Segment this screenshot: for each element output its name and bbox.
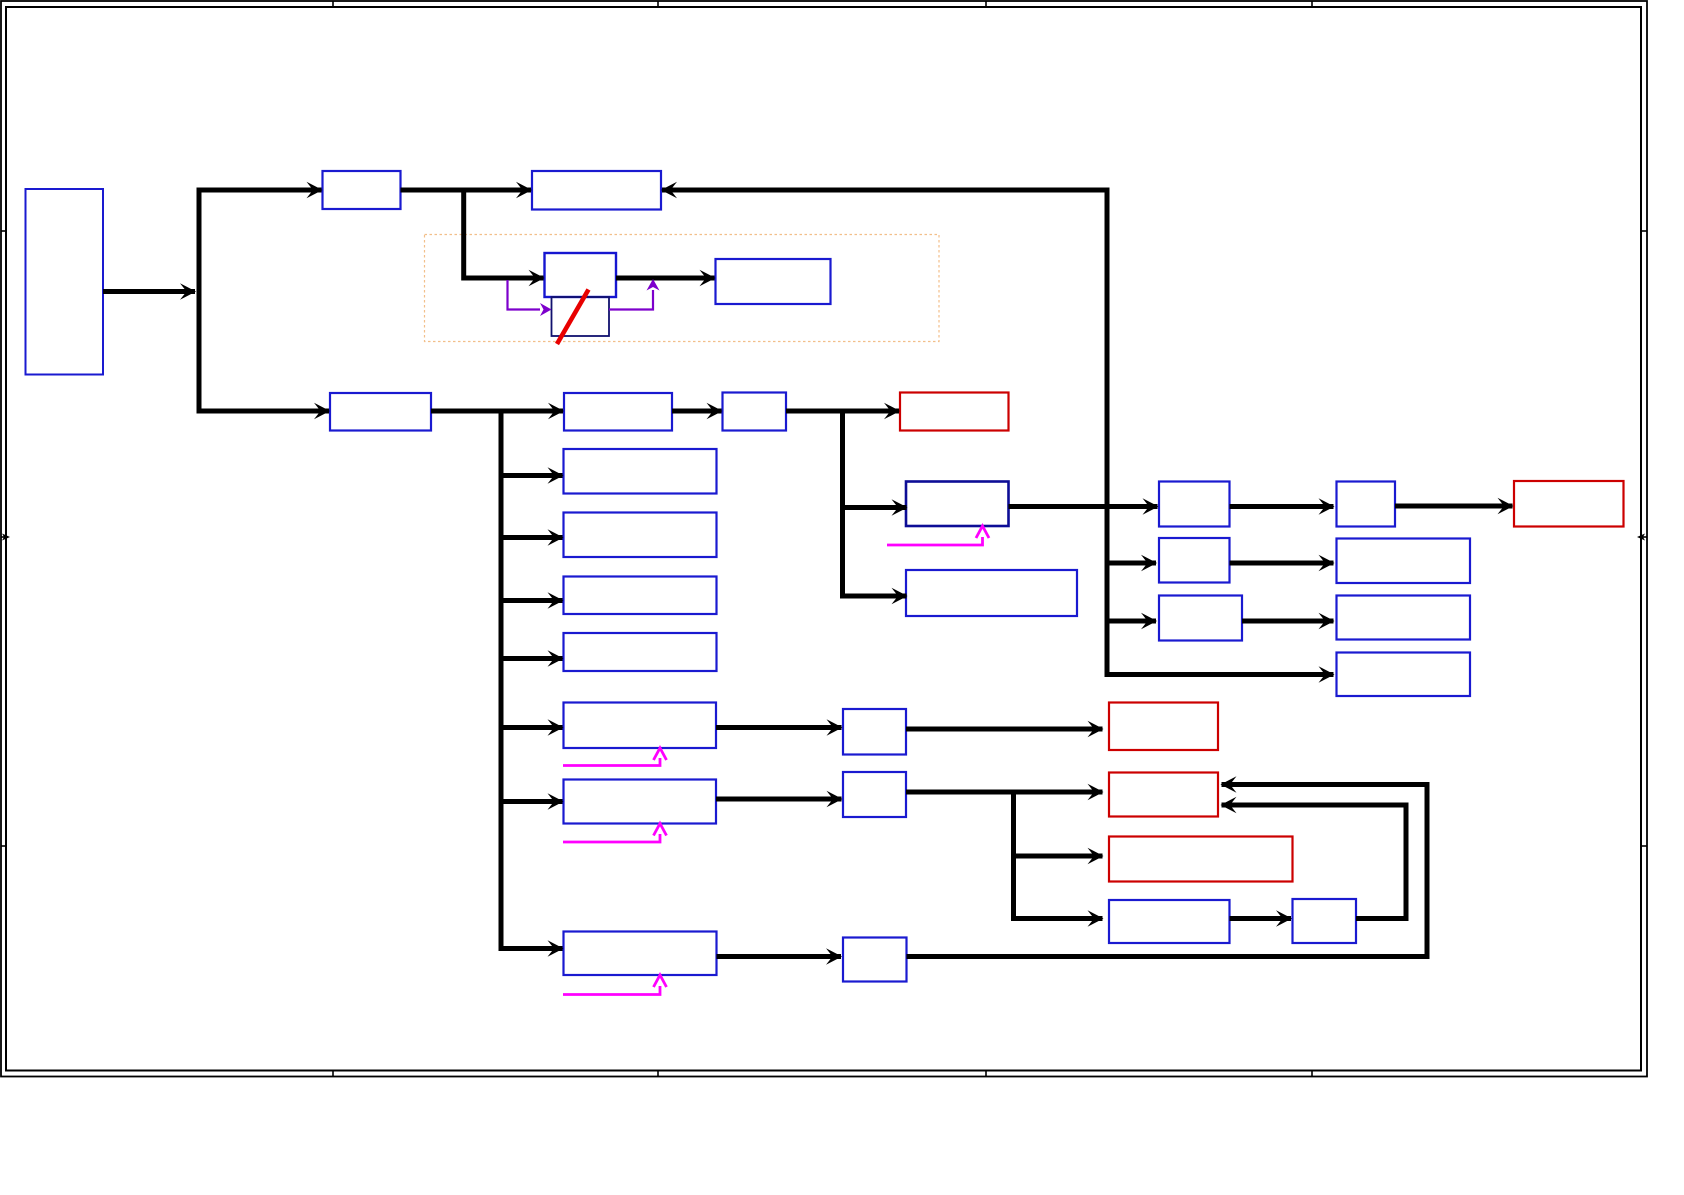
wire junction drop: [1014, 790, 1103, 919]
block N3: [1159, 538, 1230, 583]
wire drop to I1: [464, 190, 544, 278]
wire trunk to M10: [499, 535, 563, 540]
left zone tick 1: [1, 230, 7, 232]
block M1: [330, 393, 431, 431]
block B3: [532, 171, 661, 210]
right zone tick 1: [1640, 230, 1647, 232]
purple wire into I2: [508, 280, 541, 310]
wire trunk2 vertical: [843, 409, 907, 597]
block M4: [906, 482, 1009, 527]
wire N1 to N2: [1230, 504, 1334, 509]
wire M6 to SB1: [716, 725, 842, 730]
wire B1 to left trunk: [103, 289, 195, 294]
wire M8 to SB3: [717, 954, 842, 959]
block I3: [716, 259, 831, 304]
block N5: [1159, 596, 1242, 641]
wire feedback into B3: [662, 188, 1110, 193]
block R4 (red): [1514, 481, 1624, 527]
wire M1 to M2: [431, 409, 563, 414]
wire I1 to I3: [616, 276, 715, 281]
wire trunk to M12: [499, 656, 563, 661]
block SB3: [843, 938, 907, 982]
block N2: [1337, 482, 1396, 527]
wire trunk2 to M4: [840, 505, 907, 510]
wire M2 to M3: [672, 409, 722, 414]
wire N2 to R4: [1395, 504, 1513, 509]
block M7: [564, 780, 717, 824]
bottom zone tick 2: [657, 1071, 659, 1077]
block M12: [564, 633, 717, 671]
top zone tick 2: [657, 1, 659, 7]
block N7: [1337, 653, 1471, 697]
left zone tick 2: [1, 845, 7, 847]
wire M7 to SB2: [716, 797, 842, 802]
block A2: [323, 171, 401, 209]
wire SB2 to R2: [906, 790, 1103, 795]
wire trunk to M11: [499, 598, 563, 603]
wire trunk to M6: [499, 725, 563, 730]
red slash on I2: [557, 290, 589, 345]
block I1: [545, 253, 617, 297]
wire trunk to M9: [499, 473, 563, 478]
wire right trunk vertical: [1107, 188, 1334, 675]
block R3 (red): [1109, 837, 1293, 882]
block M6: [564, 703, 717, 749]
top zone tick 1: [332, 1, 334, 7]
wire SB3 feedback to R2: [907, 785, 1428, 957]
bottom zone tick 4: [1311, 1071, 1313, 1077]
left center mark: [1, 536, 7, 538]
wire M3 to R1: [786, 409, 899, 414]
block RA (red): [1109, 703, 1218, 751]
block M10: [564, 513, 717, 558]
block M11: [564, 577, 717, 615]
top zone tick 3: [985, 1, 987, 7]
block P2: [1293, 899, 1357, 943]
magenta arrow M7: [563, 834, 660, 842]
right zone tick 2: [1640, 845, 1647, 847]
block N1: [1159, 482, 1230, 527]
top zone tick 4: [1311, 1, 1313, 7]
orange dashed group box: [425, 235, 940, 342]
wire trunk to N3: [1105, 561, 1157, 566]
block M5: [906, 570, 1077, 616]
block R1 (red): [900, 393, 1009, 431]
block I2: [552, 297, 610, 336]
right center mark: [1640, 536, 1647, 538]
wire N5 to N6: [1242, 619, 1334, 624]
wire M4 to N1: [1009, 504, 1158, 509]
wire mid trunk vertical: [501, 409, 563, 949]
block N4: [1337, 539, 1471, 584]
block M8: [564, 932, 717, 976]
bottom zone tick 1: [332, 1071, 334, 1077]
wire trunk to M1: [197, 409, 330, 414]
block M2: [564, 393, 672, 431]
bottom zone tick 3: [985, 1071, 987, 1077]
purple wire I2 out: [609, 290, 653, 310]
wire trunk to A2: [197, 188, 322, 193]
wire trunk to M7: [499, 799, 563, 804]
wire junction to R3: [1011, 854, 1103, 859]
magenta arrow M6: [563, 758, 660, 766]
block N6: [1337, 596, 1471, 640]
wire left trunk vertical: [197, 188, 202, 414]
wire SB1 to RA: [906, 727, 1103, 732]
wire trunk to N5: [1105, 619, 1157, 624]
block B1: [26, 189, 104, 375]
magenta arrow M4: [887, 537, 983, 545]
block R2 (red): [1109, 773, 1218, 817]
block SB2: [843, 772, 906, 817]
wire P1 to P2: [1230, 916, 1292, 921]
wire A2 to B3: [401, 188, 532, 193]
magenta arrow M8: [563, 986, 660, 995]
block SB1: [843, 709, 906, 755]
block M9: [564, 449, 717, 494]
block M3: [723, 393, 787, 431]
block P1: [1109, 900, 1230, 943]
wire N3 to N4: [1230, 561, 1334, 566]
wire P2 feedback to R2: [1222, 805, 1407, 919]
